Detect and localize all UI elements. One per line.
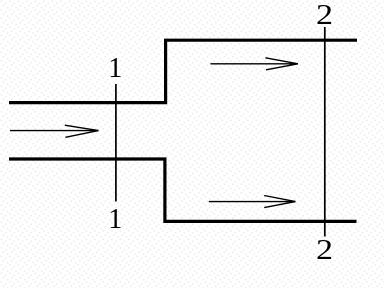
- node 2 : section line 2: [324, 27, 326, 237]
- flow arrow (upper outlet): [210, 58, 298, 70]
- wire: lower pipe wall (narrow inlet bottom, step down, wide section bottom): [9, 159, 357, 221]
- flow arrow (lower outlet): [209, 196, 296, 208]
- node 1 : section line 1: [115, 84, 117, 202]
- flow arrow (inlet): [10, 125, 99, 137]
- svg-text:2: 2: [316, 235, 333, 266]
- wire: upper pipe wall (narrow inlet top, step up, wide section top): [9, 40, 357, 102]
- svg-text:2: 2: [316, 0, 333, 31]
- svg-text:1: 1: [108, 53, 122, 84]
- svg-text:1: 1: [108, 204, 122, 235]
